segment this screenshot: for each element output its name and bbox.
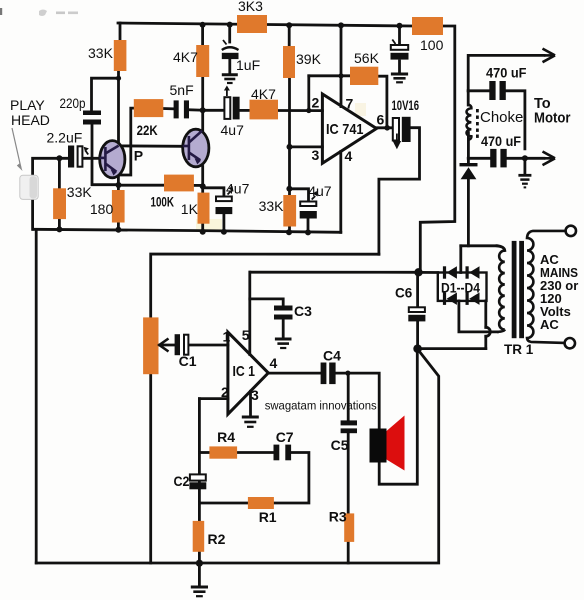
svg-text:C1: C1	[179, 353, 197, 369]
svg-text:5: 5	[242, 327, 250, 343]
svg-text:C4: C4	[323, 348, 341, 364]
svg-text:C3: C3	[294, 303, 312, 319]
svg-text:P: P	[134, 148, 143, 164]
svg-text:470 uF: 470 uF	[481, 133, 521, 149]
svg-text:IC 1: IC 1	[233, 363, 256, 380]
svg-text:6: 6	[377, 112, 385, 128]
svg-text:1: 1	[223, 329, 231, 345]
svg-text:C2: C2	[174, 473, 190, 489]
svg-text:TR 1: TR 1	[504, 342, 534, 357]
svg-text:D1--D4: D1--D4	[441, 281, 480, 296]
svg-text:AC: AC	[540, 317, 559, 332]
svg-text:Motor: Motor	[534, 111, 571, 127]
svg-text:R4: R4	[217, 429, 235, 445]
svg-text:1K: 1K	[181, 201, 199, 217]
svg-text:HEAD: HEAD	[11, 112, 50, 128]
svg-text:Choke: Choke	[480, 109, 523, 126]
svg-text:C5: C5	[331, 437, 349, 453]
svg-text:R2: R2	[208, 531, 226, 547]
svg-text:2: 2	[312, 95, 320, 111]
svg-text:22K: 22K	[137, 122, 158, 138]
svg-text:100K: 100K	[151, 194, 175, 210]
svg-text:100: 100	[420, 37, 444, 53]
svg-text:33K: 33K	[259, 198, 285, 214]
svg-text:56K: 56K	[354, 50, 380, 66]
svg-text:5nF: 5nF	[170, 82, 194, 98]
svg-text:3K3: 3K3	[238, 0, 263, 14]
svg-text:2.2uF: 2.2uF	[47, 130, 83, 146]
svg-text:4u7: 4u7	[226, 181, 250, 197]
svg-text:39K: 39K	[296, 51, 322, 67]
svg-text:C6: C6	[395, 286, 413, 301]
svg-text:3: 3	[312, 147, 320, 163]
svg-text:7: 7	[346, 96, 354, 112]
svg-text:C7: C7	[276, 429, 294, 445]
svg-text:R1: R1	[259, 509, 277, 525]
svg-text:4: 4	[270, 355, 278, 371]
svg-text:4u7: 4u7	[308, 183, 332, 199]
svg-text:IC 741: IC 741	[326, 121, 364, 138]
svg-text:R3: R3	[329, 509, 347, 525]
svg-text:33K: 33K	[88, 45, 114, 61]
svg-text:PLAY: PLAY	[10, 97, 45, 113]
svg-text:4K7: 4K7	[251, 86, 276, 102]
svg-text:swagatam innovations: swagatam innovations	[265, 399, 377, 413]
svg-text:2: 2	[221, 384, 229, 400]
svg-text:4: 4	[345, 148, 353, 164]
svg-text:10V16: 10V16	[392, 98, 420, 113]
svg-text:4u7: 4u7	[221, 122, 245, 138]
svg-text:1uF: 1uF	[236, 57, 260, 73]
svg-text:33K: 33K	[67, 184, 93, 200]
svg-text:470 uF: 470 uF	[486, 65, 527, 81]
svg-text:4K7: 4K7	[173, 49, 198, 65]
svg-text:180: 180	[90, 201, 114, 217]
svg-text:3: 3	[251, 387, 259, 403]
svg-text:220p: 220p	[60, 95, 86, 111]
